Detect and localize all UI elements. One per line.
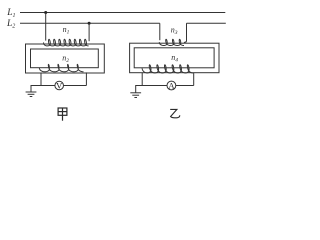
wire n4 left end down	[141, 73, 143, 86]
wire n4 right end down	[193, 73, 195, 86]
label jia (CJK) drawn	[58, 108, 67, 121]
secondary coil n4	[142, 65, 193, 73]
svg-text:A: A	[168, 81, 175, 91]
voltmeter circle	[55, 81, 64, 90]
svg-text:n1: n1	[63, 25, 70, 36]
primary coil n1	[44, 39, 89, 46]
secondary coil n2	[39, 64, 83, 71]
transformer T2 core outer rectangle	[130, 43, 219, 72]
transformer T1 core outer rectangle	[26, 44, 105, 73]
wire L2 right segment	[187, 22, 226, 24]
transformer T2 core inner rectangle	[134, 48, 214, 68]
wire voltmeter right to n2 drop	[64, 85, 87, 87]
wire ammeter right to n4 drop	[176, 85, 194, 87]
svg-text:L1: L1	[6, 8, 15, 19]
wire coil n3 right end up to right rail	[186, 23, 188, 41]
wire from L1 dot down to coil n1 left end	[45, 13, 47, 41]
tail from n3 to right riser	[184, 42, 187, 43]
ammeter circle	[167, 81, 176, 90]
wire L1	[20, 12, 225, 14]
junction dot on L2	[88, 22, 91, 25]
ground G2	[130, 92, 141, 94]
wire L2 end down to coil n3 left end	[159, 23, 161, 40]
wire n2 left end down	[40, 73, 42, 86]
wire bottom: ammeter to ground corner	[136, 86, 167, 93]
wire bottom: voltmeter to ground corner	[31, 86, 55, 93]
ground G1	[26, 91, 37, 93]
transformer T1 core inner rectangle	[31, 49, 99, 68]
svg-text:n2: n2	[62, 54, 69, 65]
label yi (CJK) drawn	[170, 109, 180, 117]
wire L2	[20, 22, 160, 24]
svg-text:V: V	[56, 81, 63, 91]
primary coil n3	[159, 39, 184, 45]
svg-text:n4: n4	[171, 53, 178, 64]
wire from coil n1 right end up to L2 dot	[88, 23, 90, 41]
junction dot on L1	[44, 11, 47, 14]
wire n2 right end down	[85, 72, 87, 85]
svg-text:n3: n3	[171, 25, 178, 36]
svg-text:L2: L2	[6, 19, 15, 30]
